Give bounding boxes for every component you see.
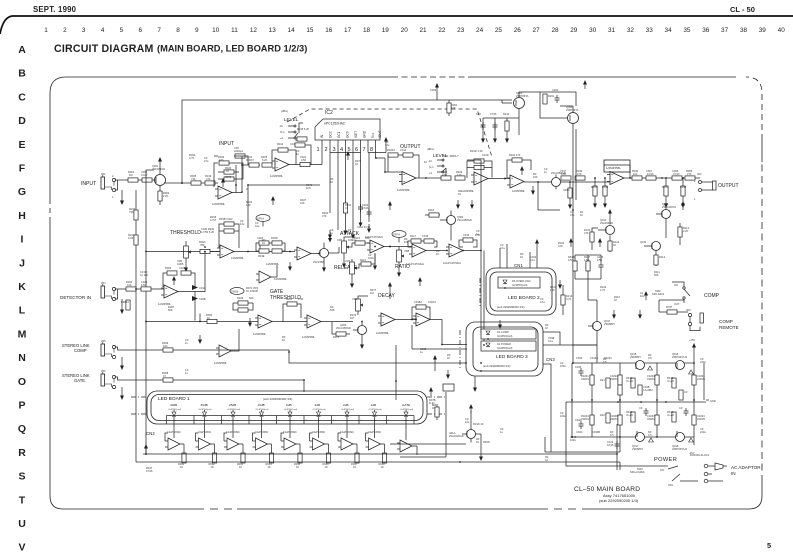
LED strip anode bus bbox=[167, 415, 415, 417]
supply arrow bbox=[346, 151, 350, 160]
svg-text:1K: 1K bbox=[268, 465, 271, 469]
AC ADAPTOR label bbox=[731, 465, 761, 476]
svg-text:DETECTOR IN: DETECTOR IN bbox=[60, 295, 91, 300]
gate wire from left rail bbox=[146, 314, 258, 322]
wires CN3 right bbox=[543, 332, 597, 374]
svg-text:1.5K: 1.5K bbox=[298, 297, 304, 301]
box C016b bbox=[408, 239, 437, 247]
resistor R03B over opamp7 bbox=[219, 217, 234, 226]
svg-text:2SC1000TA: 2SC1000TA bbox=[662, 205, 676, 209]
LED cell divider 6 bbox=[303, 416, 305, 425]
warning triangle 4 bbox=[689, 438, 694, 442]
long left vertical rail bbox=[146, 170, 154, 455]
svg-text:R047: R047 bbox=[662, 185, 669, 189]
svg-text:10K: 10K bbox=[404, 240, 409, 244]
LED cell divider 2 bbox=[193, 416, 195, 425]
resistor R113 below Q012 bbox=[654, 251, 666, 267]
svg-text:R01D 1.3K: R01D 1.3K bbox=[470, 149, 483, 153]
svg-text:0.1u: 0.1u bbox=[540, 300, 546, 304]
svg-text:R210: R210 bbox=[503, 112, 510, 116]
release resistor R116 bbox=[357, 254, 375, 268]
transistor Q004b right bbox=[566, 105, 579, 124]
svg-text:100u: 100u bbox=[570, 438, 576, 442]
svg-text:10KB: 10KB bbox=[177, 262, 184, 266]
wire input jack to Q001 bbox=[115, 180, 154, 196]
detector feedback box C026 bbox=[163, 271, 195, 287]
svg-text:0.5: 0.5 bbox=[603, 360, 607, 364]
svg-text:10u: 10u bbox=[255, 224, 260, 228]
svg-text:1/2M4558L: 1/2M4558L bbox=[231, 256, 245, 260]
D4 OVERLOAD box bbox=[498, 277, 540, 289]
junction bbox=[145, 251, 147, 253]
capacitor C046 left of grid bbox=[575, 365, 584, 376]
svg-text:1/2M4558L: 1/2M4558L bbox=[606, 166, 621, 170]
label C0 bbox=[296, 149, 300, 156]
capacitor C023 over opamp7 bbox=[219, 224, 239, 248]
label R067 bbox=[168, 305, 175, 312]
svg-text:1u 10K: 1u 10K bbox=[140, 273, 148, 277]
svg-text:N: N bbox=[18, 352, 26, 364]
svg-text:GL9PR4(red): GL9PR4(red) bbox=[199, 408, 212, 411]
svg-text:4.7K: 4.7K bbox=[600, 288, 606, 292]
svg-text:2SD880Y: 2SD880Y bbox=[630, 355, 641, 359]
svg-text:K: K bbox=[18, 281, 26, 293]
svg-text:D: D bbox=[18, 115, 26, 127]
junction bbox=[247, 251, 249, 253]
wire attack pot top bbox=[354, 242, 355, 244]
comparator U19 gate stage bbox=[397, 424, 417, 455]
wire Q017 emitter to power rail bbox=[572, 345, 597, 363]
long vertical rails to power section bbox=[573, 124, 576, 364]
main board border right bbox=[761, 140, 763, 496]
stereo comp jack JR5 bbox=[101, 339, 124, 370]
label C0 bbox=[368, 253, 374, 260]
label C0 bbox=[500, 243, 506, 250]
LED cell divider 9 bbox=[386, 416, 388, 425]
svg-text:GL9PR4(red): GL9PR4(red) bbox=[313, 408, 326, 411]
op-amp U8 small lower bbox=[214, 329, 239, 365]
svg-text:30: 30 bbox=[589, 27, 597, 34]
LED board1 dash-dot right bbox=[427, 397, 445, 414]
resistor R039 inline bbox=[575, 169, 585, 180]
svg-text:VR10: VR10 bbox=[563, 188, 570, 192]
svg-text:20: 20 bbox=[401, 27, 409, 34]
svg-text:220: 220 bbox=[533, 175, 538, 179]
svg-text:JR4: JR4 bbox=[101, 281, 106, 285]
svg-text:2SB766TA: 2SB766TA bbox=[566, 108, 579, 112]
svg-text:R048: R048 bbox=[680, 185, 687, 189]
second left vertical rail bbox=[135, 190, 137, 462]
label C0 bbox=[500, 427, 504, 434]
svg-text:1/2M4558L: 1/2M4558L bbox=[302, 335, 316, 339]
wire opamp2 to IC2 pin1 bbox=[296, 164, 322, 166]
junction bbox=[594, 177, 596, 179]
svg-text:10/16: 10/16 bbox=[607, 443, 614, 447]
transistor Q012 bbox=[640, 240, 661, 251]
resistor R0236 grid2 bbox=[610, 414, 622, 425]
pin stubs LED strip bbox=[174, 420, 406, 424]
LED D7 2dB bbox=[341, 403, 354, 421]
wire pin8 stage to opamp3 bbox=[385, 158, 402, 172]
svg-text:C04A: C04A bbox=[575, 418, 582, 422]
junction bbox=[483, 344, 485, 346]
LED D9 GATE bbox=[400, 403, 413, 421]
svg-text:R0231: R0231 bbox=[604, 356, 612, 360]
IC2 pin row bbox=[322, 137, 388, 165]
svg-text:36dB: 36dB bbox=[201, 403, 208, 407]
svg-text:1/2M4558L: 1/2M4558L bbox=[212, 202, 226, 206]
main board border top-left corner bbox=[50, 77, 66, 93]
svg-text:2SD880Y: 2SD880Y bbox=[632, 447, 643, 451]
junction bbox=[384, 171, 386, 173]
LED D4 10dB bbox=[256, 403, 269, 421]
op-amp U7a gate bbox=[253, 315, 307, 336]
junction bbox=[446, 250, 448, 252]
svg-text:1dB: 1dB bbox=[371, 403, 377, 407]
IC2 pin4 wire + resistor bbox=[343, 153, 351, 236]
svg-text:1K: 1K bbox=[353, 465, 356, 469]
svg-text:1/2M4558L: 1/2M4558L bbox=[253, 332, 267, 336]
svg-text:J1-2R: J1-2R bbox=[626, 413, 633, 417]
svg-text:8: 8 bbox=[370, 147, 373, 153]
svg-text:H: H bbox=[18, 210, 26, 222]
svg-text:C046: C046 bbox=[575, 365, 582, 369]
resistor R040 inline bbox=[632, 169, 642, 180]
junction bbox=[693, 399, 695, 401]
ground bbox=[531, 186, 535, 195]
supply arrow bbox=[598, 238, 602, 247]
svg-text:18: 18 bbox=[363, 27, 371, 34]
svg-text:7: 7 bbox=[157, 27, 161, 34]
label R109 bbox=[600, 285, 607, 292]
svg-text:Q012: Q012 bbox=[640, 240, 647, 244]
diode box power mid bbox=[679, 390, 688, 400]
svg-text:2SB766TA-R: 2SB766TA-R bbox=[672, 355, 687, 359]
arrow below LED board3 bbox=[473, 376, 477, 392]
label C0 bbox=[560, 411, 566, 418]
main board border bottom-left corner bbox=[50, 496, 63, 509]
svg-text:1K: 1K bbox=[458, 192, 461, 196]
svg-text:C20: C20 bbox=[476, 112, 481, 116]
capacitor C021 inline bbox=[300, 155, 310, 167]
svg-text:47/16: 47/16 bbox=[146, 469, 153, 473]
svg-text:47u: 47u bbox=[204, 159, 209, 163]
junction bbox=[395, 380, 397, 382]
resistor R045 bbox=[294, 453, 302, 469]
svg-text:C003: C003 bbox=[430, 88, 437, 92]
transistor Q017 bbox=[588, 319, 615, 331]
svg-text:120: 120 bbox=[457, 173, 462, 177]
op-amp U4c extra below bbox=[256, 265, 288, 283]
node input op-amp out bbox=[241, 191, 243, 193]
dashed callout level to IC2 bbox=[287, 109, 492, 157]
svg-text:2SC2458GR: 2SC2458GR bbox=[551, 171, 566, 175]
svg-text:C016: C016 bbox=[463, 233, 470, 237]
op-amp U4a threshold bbox=[217, 245, 248, 260]
resistor R002 below Q001 bbox=[158, 185, 170, 205]
svg-text:10K: 10K bbox=[300, 201, 305, 205]
IC2 pin3 wire bbox=[337, 153, 339, 231]
svg-text:2SB766TA-R: 2SB766TA-R bbox=[672, 447, 687, 451]
svg-text:1/2M4558L: 1/2M4558L bbox=[376, 331, 390, 335]
STEREO LINK COMP label bbox=[62, 343, 90, 353]
label R0 bbox=[330, 305, 335, 312]
svg-text:25dB: 25dB bbox=[229, 403, 236, 407]
label R0 bbox=[436, 249, 440, 256]
supply arrow bbox=[569, 238, 573, 247]
label R0 bbox=[330, 177, 334, 184]
label R033 bbox=[210, 215, 217, 222]
bottom rail arrow left bbox=[144, 444, 148, 454]
junction bbox=[204, 246, 206, 248]
junction bbox=[135, 288, 137, 290]
comparator U12 1/4uPC339C bbox=[196, 424, 215, 454]
svg-text:CN2: CN2 bbox=[146, 431, 155, 436]
LED board2 dash-dot marks bbox=[479, 278, 481, 306]
svg-text:2SC2458GR: 2SC2458GR bbox=[457, 218, 472, 222]
diode marks on detector vertical bbox=[192, 285, 206, 301]
svg-text:LED BOARD 1: LED BOARD 1 bbox=[158, 396, 190, 402]
svg-text:4: 4 bbox=[340, 147, 343, 153]
svg-text:DECAY: DECAY bbox=[378, 293, 396, 299]
svg-text:VR9: VR9 bbox=[352, 297, 358, 301]
svg-text:J1-2R: J1-2R bbox=[667, 413, 674, 417]
LED cell divider 3 bbox=[221, 416, 223, 425]
resistor R037 grid bbox=[256, 241, 285, 251]
svg-text:U: U bbox=[18, 518, 26, 530]
svg-text:1K: 1K bbox=[614, 298, 617, 302]
svg-text:C018A: C018A bbox=[414, 300, 422, 304]
decay labels R077 bbox=[370, 288, 377, 295]
svg-text:G: G bbox=[18, 186, 26, 198]
junction bbox=[318, 253, 320, 255]
svg-text:560: 560 bbox=[654, 273, 659, 277]
resistor R046 box bbox=[233, 296, 254, 305]
svg-text:CL–50 MAIN BOARD: CL–50 MAIN BOARD bbox=[574, 486, 640, 493]
power grid mid rail bbox=[566, 401, 706, 403]
capacitor C06 label bbox=[234, 146, 245, 158]
svg-text:1.5K: 1.5K bbox=[584, 258, 590, 262]
transistor Q008 bbox=[656, 202, 676, 219]
svg-text:1K: 1K bbox=[424, 160, 427, 164]
svg-text:R066: R066 bbox=[165, 266, 172, 270]
svg-text:C016: C016 bbox=[422, 234, 429, 238]
IC2 pin8 wire to output stage bbox=[376, 153, 386, 159]
label R0 bbox=[432, 403, 436, 410]
resistor R043 bbox=[237, 453, 245, 469]
svg-text:1K: 1K bbox=[282, 338, 285, 342]
labels R213 left bbox=[550, 285, 557, 292]
svg-text:1K: 1K bbox=[262, 241, 265, 245]
wire Q005 to attack bbox=[329, 247, 340, 253]
capacitor C003 vertical bbox=[430, 83, 439, 100]
svg-text:C04C: C04C bbox=[576, 430, 583, 434]
comparator U18 1/4uPC339C bbox=[366, 424, 385, 454]
svg-text:C01D: C01D bbox=[482, 153, 489, 157]
label R0 bbox=[404, 237, 409, 244]
svg-text:470: 470 bbox=[219, 158, 224, 162]
resistor R068 stereo gate bbox=[162, 371, 173, 382]
svg-text:37: 37 bbox=[721, 27, 729, 34]
label R0 bbox=[458, 189, 462, 196]
warning triangle 1 bbox=[648, 366, 653, 370]
svg-text:47K: 47K bbox=[442, 173, 447, 177]
resistor R115 attack bbox=[349, 236, 370, 247]
svg-text:3: 3 bbox=[332, 147, 335, 153]
resistor R0232 grid bbox=[610, 374, 622, 385]
junction bbox=[145, 453, 147, 455]
junction bbox=[693, 362, 695, 364]
resistor boxes over opamp10 bbox=[410, 234, 429, 243]
svg-text:C: C bbox=[18, 91, 26, 103]
label R024 bbox=[322, 211, 329, 218]
junction bbox=[235, 184, 237, 186]
capacitor C013 inline bbox=[246, 155, 259, 167]
svg-text:C204: C204 bbox=[552, 88, 559, 92]
resistor R120 left of Q013 bbox=[584, 228, 598, 250]
svg-text:SPA+N109A: SPA+N109A bbox=[630, 470, 645, 474]
svg-text:10u: 10u bbox=[465, 420, 470, 424]
op-amp U4b threshold2 bbox=[266, 247, 319, 266]
label C0 bbox=[352, 235, 357, 242]
bottom middle vertical bbox=[445, 392, 447, 457]
ground input jack bbox=[120, 196, 124, 205]
LED cell divider 8 bbox=[358, 416, 360, 425]
junction bbox=[241, 164, 243, 166]
svg-text:GND: GND bbox=[363, 130, 367, 138]
svg-text:GL9PR4(red): GL9PR4(red) bbox=[497, 334, 513, 338]
junction bbox=[389, 246, 391, 248]
IC2 pin6 wire + cap bbox=[358, 153, 369, 228]
gate labels R071 VR bbox=[246, 286, 259, 293]
resistor R0233 grid bbox=[647, 374, 659, 385]
svg-text:6: 6 bbox=[355, 147, 358, 153]
svg-text:J1-2R: J1-2R bbox=[626, 379, 633, 383]
power grid bottom rail bbox=[572, 436, 694, 438]
resistor R049 box2 bbox=[233, 303, 253, 312]
label R0 bbox=[520, 252, 524, 259]
label R0 bbox=[262, 238, 266, 245]
comparator U17 1/4uPC339C bbox=[338, 424, 357, 454]
feedback C015 bbox=[467, 161, 492, 178]
main board border bottom-right corner bbox=[749, 496, 762, 509]
svg-text:COMP: COMP bbox=[704, 293, 720, 299]
comparator U16 1/4uPC339C bbox=[310, 424, 329, 454]
svg-text:5: 5 bbox=[767, 541, 771, 550]
svg-text:COMP: COMP bbox=[74, 348, 87, 353]
svg-text:R03D: R03D bbox=[271, 236, 278, 240]
svg-text:GL9PR4(red): GL9PR4(red) bbox=[256, 408, 269, 411]
svg-text:9: 9 bbox=[195, 27, 199, 34]
main board border bottom bbox=[63, 508, 749, 510]
label R071 bbox=[306, 183, 313, 190]
svg-text:JR5: JR5 bbox=[101, 339, 106, 343]
resistor R026 inline bbox=[261, 155, 272, 167]
svg-text:10dB: 10dB bbox=[258, 403, 265, 407]
LED board1 inner border bbox=[151, 395, 423, 421]
D1 COMP box bbox=[481, 329, 536, 340]
transistor Q003 bbox=[502, 91, 529, 109]
svg-text:0.1u: 0.1u bbox=[500, 246, 506, 250]
svg-text:ISET: ISET bbox=[354, 131, 358, 138]
wire to opamp5 bbox=[502, 179, 610, 183]
svg-text:DC015A-21-K12: DC015A-21-K12 bbox=[690, 453, 710, 457]
label C0 bbox=[204, 156, 209, 163]
label R0 bbox=[533, 172, 538, 179]
wire comp area joins bbox=[659, 300, 684, 312]
feedback box over op-amp5 bbox=[604, 160, 630, 178]
resistor right of LED strip bbox=[435, 404, 439, 420]
svg-text:2SB766TA: 2SB766TA bbox=[516, 94, 529, 98]
svg-text:330/6V: 330/6V bbox=[581, 377, 589, 381]
svg-text:33: 33 bbox=[646, 27, 654, 34]
svg-text:47K: 47K bbox=[577, 172, 582, 176]
svg-text:1/2M4558L: 1/2M4558L bbox=[397, 188, 411, 192]
detector jack JR4 bbox=[101, 281, 124, 314]
svg-text:R02D: R02D bbox=[483, 440, 490, 444]
svg-text:GL9PR4(red): GL9PR4(red) bbox=[369, 408, 382, 411]
svg-text:2: 2 bbox=[63, 27, 67, 34]
wire pot wiper to opamp7 bbox=[146, 251, 220, 253]
resistor R020 at level bbox=[295, 138, 311, 165]
svg-text:GC3: GC3 bbox=[346, 131, 350, 138]
svg-text:I: I bbox=[21, 234, 24, 246]
resistor R0237 grid2 bbox=[647, 414, 659, 425]
wire Q001 out to feedback node bbox=[164, 182, 218, 184]
svg-text:GR7A: GR7A bbox=[393, 233, 400, 237]
Q001 drain supply arrow bbox=[158, 157, 162, 175]
svg-text:22: 22 bbox=[438, 27, 446, 34]
svg-text:F: F bbox=[19, 163, 26, 175]
svg-text:1K5: 1K5 bbox=[306, 186, 311, 190]
svg-text:38: 38 bbox=[740, 27, 748, 34]
label R076 bbox=[350, 313, 357, 320]
svg-text:2.2K: 2.2K bbox=[163, 194, 169, 198]
svg-text:(sub 2292090200 3/4): (sub 2292090200 3/4) bbox=[483, 364, 510, 368]
column numbers bbox=[44, 27, 785, 34]
svg-text:R024A: R024A bbox=[387, 148, 395, 152]
svg-text:R118: R118 bbox=[428, 208, 435, 212]
row letters bbox=[18, 44, 27, 554]
svg-text:34: 34 bbox=[665, 27, 673, 34]
resistor R001 bbox=[128, 170, 138, 182]
svg-text:1K: 1K bbox=[447, 356, 450, 360]
supply arrow decay bbox=[388, 282, 392, 299]
svg-text:1/2M4558L: 1/2M4558L bbox=[266, 262, 280, 266]
svg-text:CL - 50: CL - 50 bbox=[730, 5, 755, 14]
svg-text:GL9PR4(red): GL9PR4(red) bbox=[227, 408, 240, 411]
svg-text:27: 27 bbox=[533, 27, 541, 34]
svg-text:(sub 2292090200 1/4): (sub 2292090200 1/4) bbox=[599, 498, 639, 503]
svg-text:N.C.: N.C. bbox=[429, 165, 434, 169]
box A011 label bbox=[429, 384, 454, 405]
node dot at x182 bbox=[181, 182, 183, 184]
wire stereo gate long bbox=[115, 377, 304, 392]
svg-text:10K: 10K bbox=[558, 244, 563, 248]
feedback wires around input op-amp bbox=[214, 156, 248, 187]
ground bbox=[248, 318, 252, 327]
svg-text:56K: 56K bbox=[168, 308, 173, 312]
svg-text:78K: 78K bbox=[200, 243, 205, 247]
transistor Q002 on wire bbox=[551, 171, 566, 190]
IC2 pin7 wire + cap C011 bbox=[357, 153, 372, 234]
junction bbox=[480, 250, 482, 252]
feedback stack over op-amp U2c bbox=[507, 153, 531, 178]
svg-text:R01D 1K: R01D 1K bbox=[473, 422, 484, 426]
svg-text:M: M bbox=[18, 328, 27, 340]
up arrow near LED3 bbox=[433, 355, 437, 371]
svg-text:(sub 2292090300 3/4): (sub 2292090300 3/4) bbox=[263, 397, 292, 401]
